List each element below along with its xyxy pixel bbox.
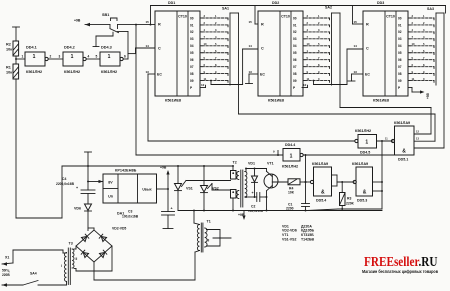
nand gate DD5.4 xyxy=(314,167,332,196)
svg-text:КД105Б: КД105Б xyxy=(301,229,314,233)
svg-text:15: 15 xyxy=(146,20,150,24)
svg-text:КТ315Б: КТ315Б xyxy=(301,233,314,237)
wire DD4.3 output riser to SB1 and C input of DD1 xyxy=(123,58,128,60)
svg-text:R: R xyxy=(366,23,369,27)
svg-text:SA3: SA3 xyxy=(427,7,434,11)
wire rail drop to DD2 R xyxy=(254,6,256,25)
wire EC DD2 to common stub xyxy=(249,73,258,75)
common bottom rail of control stage xyxy=(178,210,382,212)
svg-text:08: 08 xyxy=(398,72,402,76)
svg-text:10: 10 xyxy=(307,42,310,46)
svg-text:DD3: DD3 xyxy=(377,1,384,5)
wire DD4.1 out to DD4.2 in xyxy=(48,58,63,60)
svg-text:К561ЛА9: К561ЛА9 xyxy=(352,162,368,166)
svg-text:+9В: +9В xyxy=(160,166,167,170)
capacitor C2 xyxy=(246,196,257,198)
svg-text:15: 15 xyxy=(249,20,253,24)
wire DD5.4 output to R4 xyxy=(300,181,310,183)
capacitor C4 xyxy=(81,189,95,191)
svg-text:5: 5 xyxy=(96,55,98,59)
svg-text:VD1: VD1 xyxy=(282,224,289,228)
wire bridge plus output up to VD6 xyxy=(93,228,95,230)
wire SA1 bus down-feeder xyxy=(238,13,240,114)
svg-text:EC: EC xyxy=(260,73,265,77)
svg-text:10: 10 xyxy=(204,42,207,46)
svg-text:1: 1 xyxy=(71,54,74,60)
svg-text:DD5.3: DD5.3 xyxy=(357,199,367,203)
svg-text:VD6: VD6 xyxy=(74,207,81,211)
svg-text:Д220А: Д220А xyxy=(301,224,312,228)
svg-text:DD1: DD1 xyxy=(168,1,175,5)
regulator DA1 KR142EN8 xyxy=(103,174,157,203)
svg-text:КР142ЕН8Б: КР142ЕН8Б xyxy=(115,169,137,173)
counter DD1 K561IE8 xyxy=(155,11,200,96)
svg-text:DD2: DD2 xyxy=(272,1,279,5)
svg-text:12: 12 xyxy=(303,83,307,87)
svg-text:C: C xyxy=(158,47,161,51)
diode VD6 xyxy=(85,204,92,211)
inverter DD4.1 xyxy=(25,52,45,66)
svg-text:07: 07 xyxy=(398,65,402,69)
svg-text:К561ЛН2: К561ЛН2 xyxy=(355,129,371,133)
svg-text:SA2: SA2 xyxy=(325,6,332,10)
svg-text:04: 04 xyxy=(190,44,194,48)
wire R1-R2 junction to DD4.1 input xyxy=(15,56,17,64)
wire R1 bottom to common xyxy=(15,79,17,218)
svg-text:CT10: CT10 xyxy=(386,15,395,19)
svg-text:SA1: SA1 xyxy=(222,7,229,11)
wire T1 primary top to thyristor rail xyxy=(193,211,195,224)
svg-text:3: 3 xyxy=(59,55,61,59)
svg-text:SB1: SB1 xyxy=(102,13,109,17)
common rail to T1 xyxy=(94,279,195,281)
svg-text:Uп: Uп xyxy=(108,195,113,199)
wire VT1 collector rail to T2 and VD1 xyxy=(246,168,267,170)
svg-text:DD4.5: DD4.5 xyxy=(360,151,370,155)
svg-text:К561ЛА9: К561ЛА9 xyxy=(312,162,328,166)
svg-text:C: C xyxy=(261,47,264,51)
svg-text:1: 1 xyxy=(365,140,368,146)
svg-text:К561ЛН2: К561ЛН2 xyxy=(101,70,117,74)
svg-text:С4: С4 xyxy=(62,177,66,181)
junction stub on DD4.4 output line xyxy=(277,151,279,156)
P pin stub DD1 xyxy=(200,87,206,89)
wire SA3 bus down-feeder to DD5.1 input xyxy=(443,13,445,148)
svg-text:С2: С2 xyxy=(251,205,255,209)
svg-text:50Гц: 50Гц xyxy=(2,269,9,273)
thyristor VS1 xyxy=(177,166,179,184)
svg-text:&: & xyxy=(402,149,406,155)
svg-text:Т142БВ: Т142БВ xyxy=(301,238,314,242)
svg-text:R3: R3 xyxy=(347,197,351,201)
inverter DD4.2 xyxy=(63,52,83,66)
main +U rail xyxy=(62,165,233,167)
bridge rectifier VD2-VD5 xyxy=(76,230,112,262)
transistor VT1 xyxy=(264,174,278,188)
svg-text:Магазин бесплатных цифровых то: Магазин бесплатных цифровых товаров xyxy=(362,269,438,274)
terminal above C4 xyxy=(87,152,89,166)
svg-text:К561ИЕ8: К561ИЕ8 xyxy=(268,99,284,103)
svg-text:01: 01 xyxy=(190,23,194,27)
+9V up arrow at regulator output xyxy=(167,173,169,189)
P pin stub DD2 xyxy=(302,87,308,89)
wire C4 top / regulator input xyxy=(87,166,89,190)
wire rail left leg xyxy=(61,166,63,218)
nand gate DD5.1 xyxy=(395,126,415,155)
svg-text:VT1: VT1 xyxy=(282,233,288,237)
svg-text:00: 00 xyxy=(190,16,194,20)
capacitor C3 xyxy=(167,189,169,212)
svg-text:К561ЛА9: К561ЛА9 xyxy=(394,121,410,125)
svg-text:C: C xyxy=(366,47,369,51)
svg-text:R1: R1 xyxy=(6,66,11,70)
wire +9V arrow to SB1 rail and R inputs xyxy=(85,23,90,27)
wire DD4.5 input from DD5.1 output xyxy=(377,140,394,142)
svg-text:+: + xyxy=(252,191,254,195)
svg-text:2200: 2200 xyxy=(286,207,294,211)
svg-text:09: 09 xyxy=(190,79,194,83)
wire DD4.2 out to DD4.3 in xyxy=(86,58,100,60)
svg-text:1: 1 xyxy=(290,154,293,160)
wire DD5.4 inputs from DD5.3 output xyxy=(332,174,338,176)
svg-text:00: 00 xyxy=(293,16,297,20)
wire rail drop to DD1 R xyxy=(150,6,152,25)
svg-text:09: 09 xyxy=(293,79,297,83)
wire rail drop to DD3 R xyxy=(352,6,354,25)
counter DD2 K561IE8 xyxy=(258,11,303,96)
svg-text:Uвых: Uвых xyxy=(142,188,151,192)
wire T3 primary bottom to mains switch xyxy=(66,282,68,286)
counter DD3 K561IE8 xyxy=(363,11,408,96)
wire SB1 junction down to DD4.4 input xyxy=(135,25,137,155)
svg-text:К561ИЕ8: К561ИЕ8 xyxy=(373,99,389,103)
wire DD5.1 input 1 from SA2 xyxy=(414,133,431,135)
wire T2 upper section to +U rail xyxy=(232,166,234,171)
resistor R1 xyxy=(13,64,19,79)
wire 09 of DD1 cascade to C of DD2 xyxy=(210,80,212,82)
wire DD5.3 inputs to DD5.1 output net xyxy=(373,181,383,183)
svg-text:13: 13 xyxy=(354,70,358,74)
wire DD5.1 input 3 stub xyxy=(414,147,444,149)
wire T2 lower section to common rail xyxy=(232,198,234,211)
T1 secondary output loop with spark gap xyxy=(206,230,220,247)
svg-text:03: 03 xyxy=(293,37,297,41)
svg-text:VS2: VS2 xyxy=(212,187,219,191)
svg-text:10к: 10к xyxy=(6,71,12,75)
svg-text:06: 06 xyxy=(190,58,194,62)
svg-text:CT10: CT10 xyxy=(178,15,187,19)
svg-text:Х1: Х1 xyxy=(5,256,9,260)
nand gate DD5.3 xyxy=(356,167,373,196)
svg-text:220В: 220В xyxy=(2,273,10,277)
svg-text:Т1: Т1 xyxy=(207,220,211,224)
svg-text:+: + xyxy=(171,207,173,211)
svg-text:05: 05 xyxy=(398,51,402,55)
wire DD4.4 out junction down to R4 net and C1 xyxy=(305,155,307,204)
wire P of DD3 to +9V arrow xyxy=(408,87,412,89)
svg-text:II: II xyxy=(76,257,78,261)
svg-text:К561ИЕ8: К561ИЕ8 xyxy=(165,99,181,103)
svg-text:SA4: SA4 xyxy=(30,272,37,276)
svg-text:05: 05 xyxy=(293,51,297,55)
svg-text:Т3: Т3 xyxy=(69,242,73,246)
svg-text:09: 09 xyxy=(398,79,402,83)
inverter DD4.3 xyxy=(100,52,120,66)
wire C4 bottom to VD6 xyxy=(87,194,89,205)
wire T3 primary top from mains xyxy=(12,250,14,263)
wire DD5.1 input 2 from SA1 xyxy=(414,140,435,142)
svg-text:Т2: Т2 xyxy=(233,161,237,165)
svg-text:К561ЛН2: К561ЛН2 xyxy=(282,165,298,169)
svg-text:6: 6 xyxy=(124,55,126,59)
svg-text:II: II xyxy=(208,239,210,243)
svg-text:+9В: +9В xyxy=(426,92,430,99)
svg-text:DD4.1: DD4.1 xyxy=(26,46,37,50)
svg-text:EC: EC xyxy=(365,73,370,77)
svg-text:&: & xyxy=(321,190,325,196)
svg-text:07: 07 xyxy=(190,65,194,69)
svg-text:1: 1 xyxy=(22,55,24,59)
svg-text:10К: 10К xyxy=(288,190,295,194)
svg-text:08: 08 xyxy=(293,72,297,76)
svg-text:DD5.4: DD5.4 xyxy=(316,199,326,203)
svg-text:02: 02 xyxy=(190,30,194,34)
svg-text:2200,0х16В: 2200,0х16В xyxy=(56,182,75,186)
svg-text:8V: 8V xyxy=(108,181,113,185)
svg-text:14: 14 xyxy=(249,44,253,48)
svg-text:&: & xyxy=(363,190,367,196)
wire R4 to VT1 base xyxy=(272,181,288,183)
svg-text:VD2-VD6: VD2-VD6 xyxy=(282,229,297,233)
wire bridge AC right to T3 secondary bottom xyxy=(111,246,113,271)
svg-text:1: 1 xyxy=(108,54,111,60)
resistor R4 xyxy=(288,179,300,185)
wire rail drop to SA3 bus xyxy=(445,6,447,14)
svg-text:VD1: VD1 xyxy=(248,162,255,166)
wire bridge minus down to common rail xyxy=(93,262,95,280)
svg-text:+9В: +9В xyxy=(238,213,245,217)
+9V down arrow tap xyxy=(243,211,245,218)
svg-text:100,0х10В: 100,0х10В xyxy=(248,209,264,213)
antenna/sensor terminal E1 xyxy=(13,26,20,28)
wire EC DD1 to DD4.5 output xyxy=(148,73,155,75)
svg-text:VD2-VD5: VD2-VD5 xyxy=(112,227,126,231)
svg-text:К561ЛН2: К561ЛН2 xyxy=(26,70,42,74)
svg-text:06: 06 xyxy=(293,58,297,62)
svg-text:03: 03 xyxy=(398,37,402,41)
svg-text:07: 07 xyxy=(293,65,297,69)
wire R3 leads xyxy=(341,182,343,193)
svg-text:13: 13 xyxy=(146,70,150,74)
thyristor VS2 xyxy=(203,166,205,186)
svg-text:06: 06 xyxy=(398,58,402,62)
svg-text:DD4.3: DD4.3 xyxy=(101,46,112,50)
switch SA4 xyxy=(23,281,38,286)
wire bridge AC left to T3 secondary xyxy=(75,246,77,249)
svg-text:08: 08 xyxy=(190,72,194,76)
svg-text:I: I xyxy=(61,264,62,268)
svg-text:CT10: CT10 xyxy=(281,15,290,19)
svg-text:220К: 220К xyxy=(346,202,355,206)
svg-text:R: R xyxy=(158,23,161,27)
svg-text:13: 13 xyxy=(249,70,253,74)
diode VD1 xyxy=(252,176,258,182)
svg-text:VS1: VS1 xyxy=(186,187,193,191)
wire bottom net of gate cluster xyxy=(338,208,382,210)
svg-text:01: 01 xyxy=(398,23,402,27)
resistor R2 xyxy=(13,41,19,56)
svg-text:03: 03 xyxy=(190,37,194,41)
wire T3 secondary bottom jog xyxy=(74,268,76,270)
svg-text:00: 00 xyxy=(398,16,402,20)
top reset rail xyxy=(151,5,446,7)
svg-text:VS1-VS2: VS1-VS2 xyxy=(282,238,296,242)
wire regulator output xyxy=(157,188,169,190)
svg-text:02: 02 xyxy=(398,30,402,34)
wire EC DD3 to common stub xyxy=(352,73,364,75)
svg-text:04: 04 xyxy=(398,44,402,48)
svg-text:DD5.1: DD5.1 xyxy=(398,158,408,162)
svg-text:EC: EC xyxy=(157,73,162,77)
svg-text:02: 02 xyxy=(293,30,297,34)
wire DD4.4 output line xyxy=(303,154,395,156)
svg-text:10: 10 xyxy=(412,42,415,46)
capacitor C1 xyxy=(305,203,307,205)
wire 09 of DD2 cascade to C of DD3 xyxy=(313,80,315,82)
svg-text:FREEseller.RU: FREEseller.RU xyxy=(364,255,438,270)
svg-text:DD4.2: DD4.2 xyxy=(64,46,75,50)
svg-text:01: 01 xyxy=(293,23,297,27)
svg-text:04: 04 xyxy=(293,44,297,48)
svg-text:1: 1 xyxy=(33,54,36,60)
svg-text:С3: С3 xyxy=(128,210,132,214)
open terminal stub near SB1 xyxy=(93,46,99,48)
inverter DD4.4 xyxy=(283,149,300,162)
svg-text:10к: 10к xyxy=(6,48,12,52)
svg-text:2: 2 xyxy=(50,55,52,59)
svg-text:DD4.4: DD4.4 xyxy=(285,143,295,147)
svg-text:+: + xyxy=(76,186,78,190)
svg-text:К561ЛН2: К561ЛН2 xyxy=(64,70,80,74)
svg-text:05: 05 xyxy=(190,51,194,55)
svg-text:12: 12 xyxy=(201,83,205,87)
svg-text:15: 15 xyxy=(354,20,358,24)
svg-text:VT1: VT1 xyxy=(267,162,274,166)
svg-text:R: R xyxy=(261,23,264,27)
svg-text:100,0х16В: 100,0х16В xyxy=(122,215,139,219)
svg-text:14: 14 xyxy=(146,44,150,48)
svg-text:4: 4 xyxy=(88,55,90,59)
wire DD5.1 output junction down to DD5.3 inputs xyxy=(381,141,383,209)
svg-text:+9В: +9В xyxy=(74,19,81,23)
svg-text:R2: R2 xyxy=(6,43,11,47)
svg-text:14: 14 xyxy=(354,44,358,48)
wire SA2 bus down-feeder xyxy=(339,13,341,108)
inverter DD4.5 xyxy=(358,135,377,149)
resistor R3 xyxy=(340,193,346,206)
